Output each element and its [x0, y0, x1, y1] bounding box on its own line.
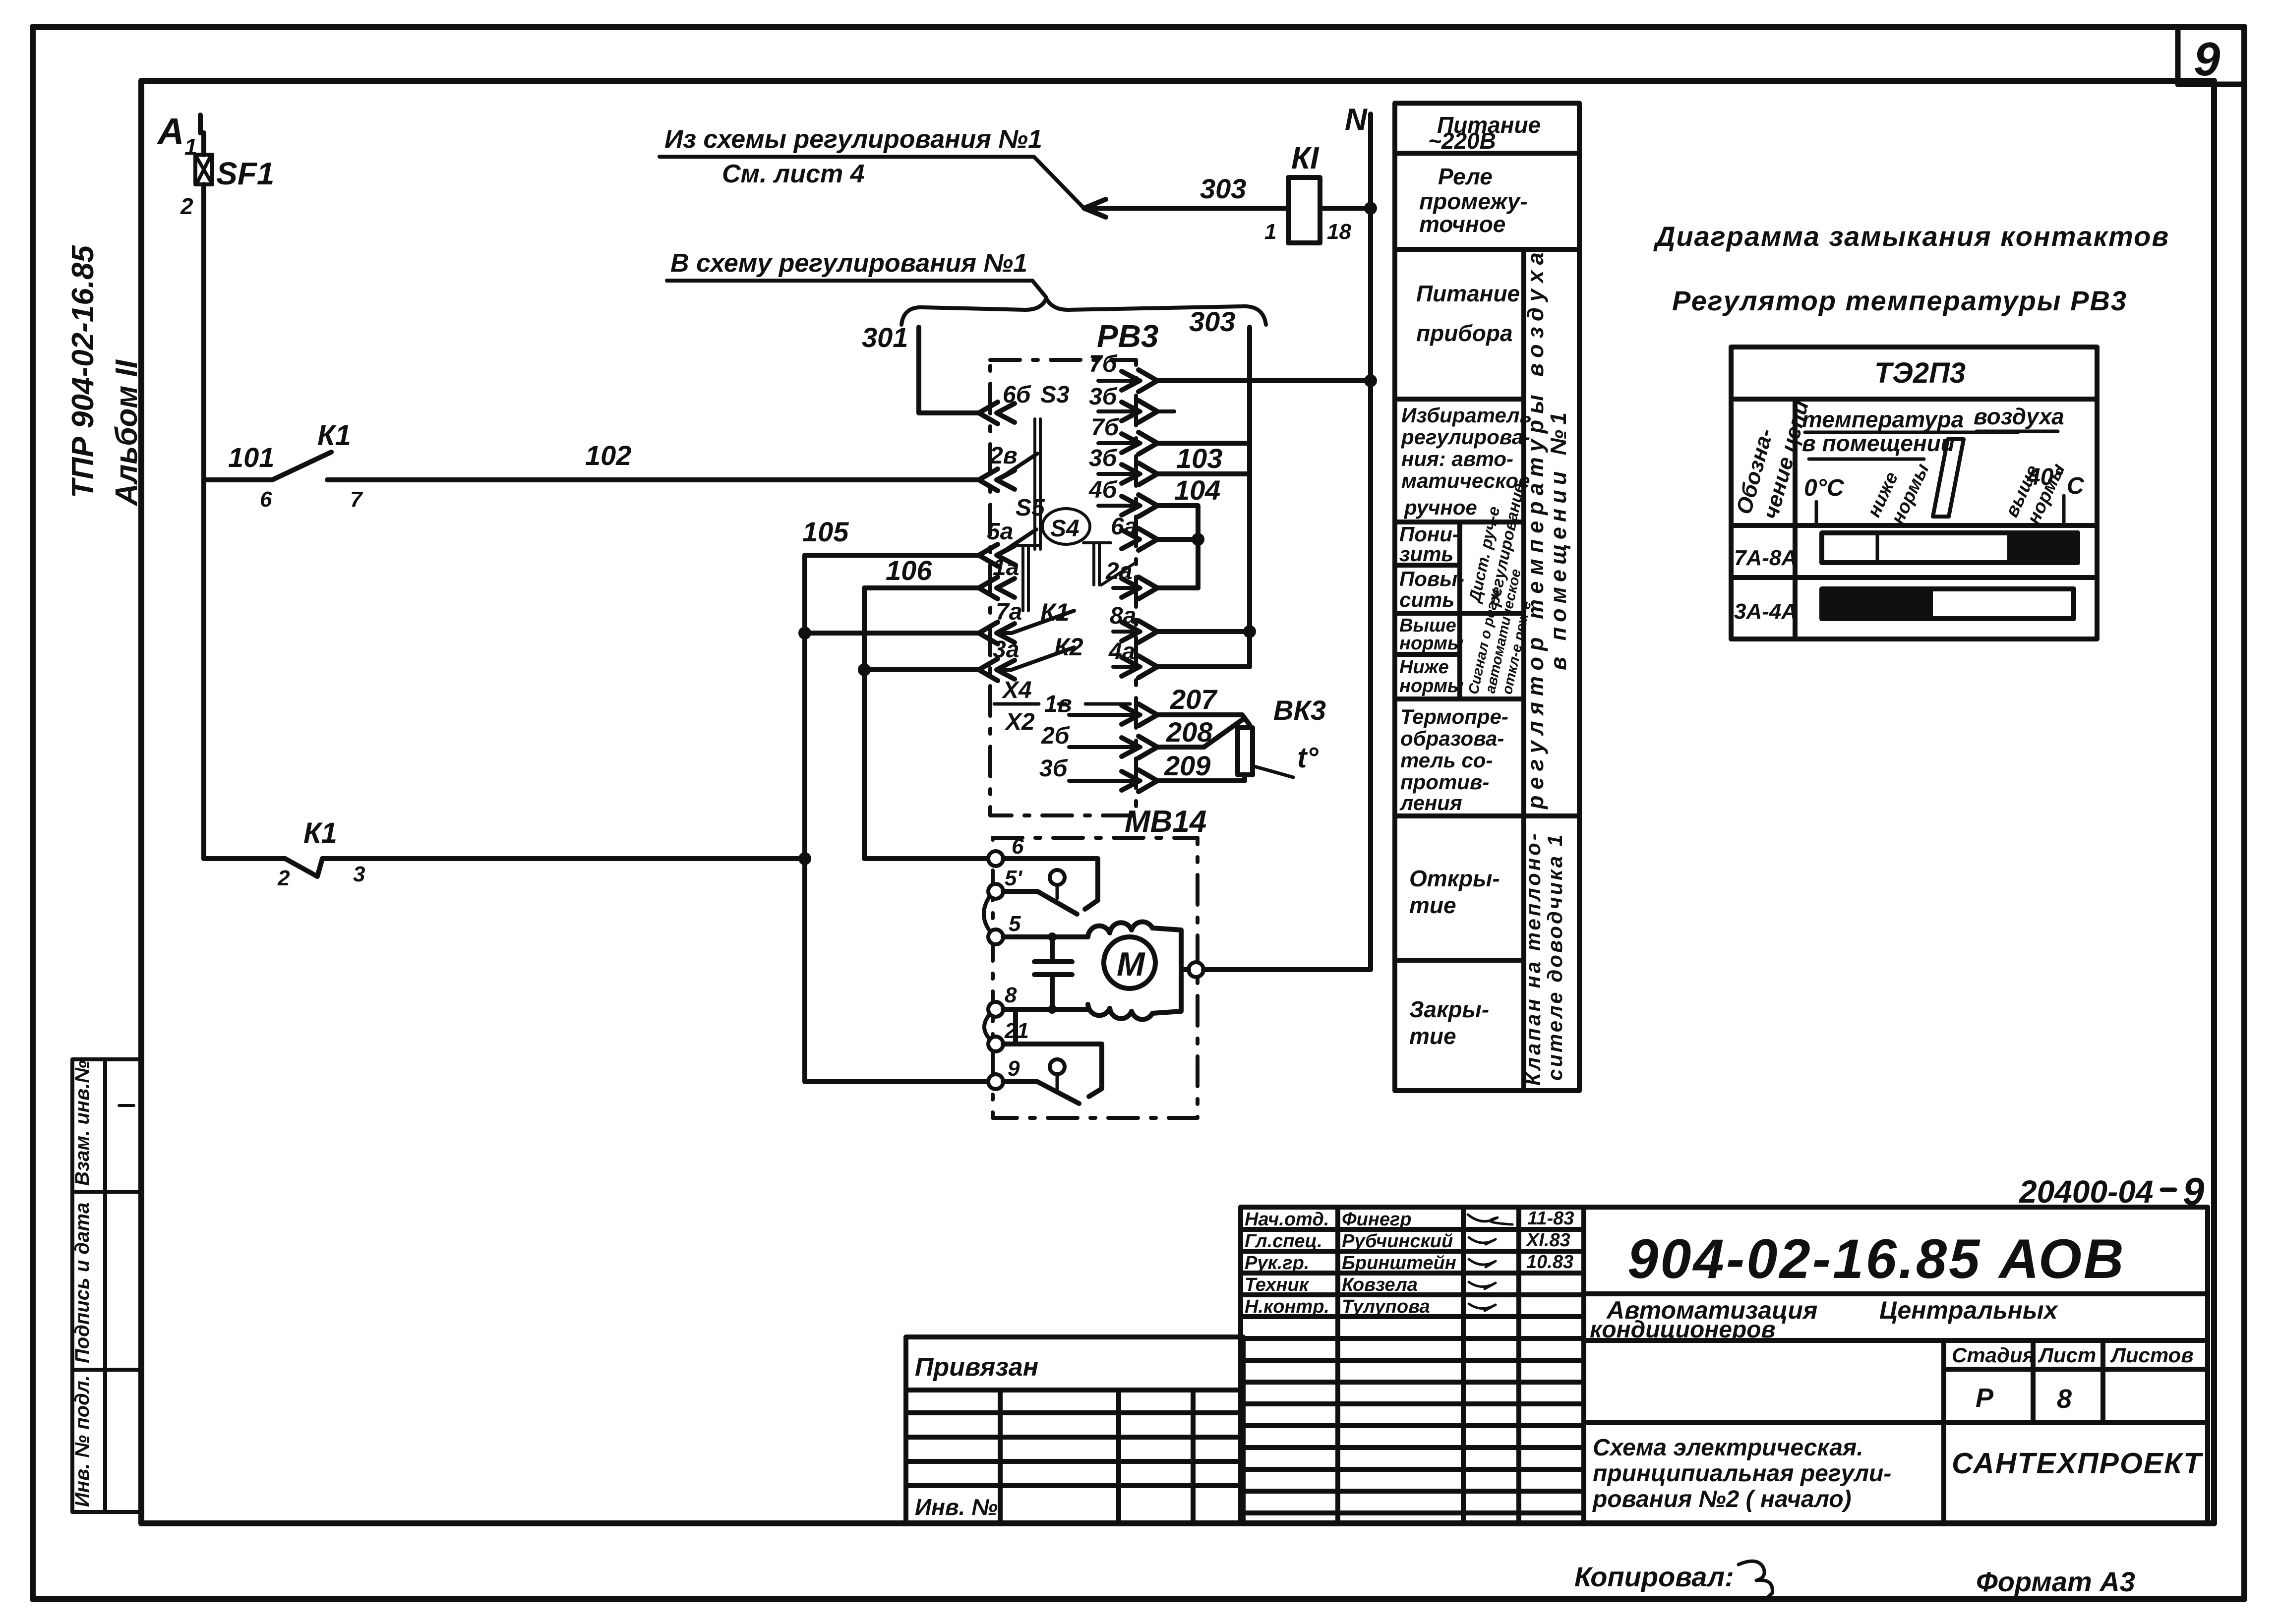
svg-text:101: 101 — [228, 442, 274, 473]
terminal arrow 4b row5 — [1088, 477, 1157, 517]
svg-text:К2: К2 — [1054, 633, 1083, 661]
winding top — [1088, 922, 1181, 967]
wire 207 — [1157, 684, 1250, 725]
terminal 21 — [988, 1019, 1029, 1051]
svg-text:303: 303 — [1189, 306, 1235, 337]
svg-text:ТПР 904-02-16.85: ТПР 904-02-16.85 — [66, 245, 100, 498]
svg-text:рования №2 ( начало): рования №2 ( начало) — [1592, 1486, 1852, 1512]
winding bottom — [1088, 973, 1181, 1019]
wire row9 to bus — [1157, 664, 1250, 669]
svg-text:3: 3 — [353, 862, 365, 886]
svg-text:промежу-: промежу- — [1419, 188, 1528, 214]
brace over RV3 feeders — [901, 298, 1266, 325]
svg-text:МВ14: МВ14 — [1125, 805, 1206, 839]
sensor row 1v — [1044, 691, 1157, 726]
svg-text:Реле: Реле — [1438, 164, 1493, 189]
svg-text:САНТЕХПРОЕКТ: САНТЕХПРОЕКТ — [1952, 1447, 2204, 1480]
svg-text:Из схемы регулирования №1: Из схемы регулирования №1 — [664, 125, 1042, 154]
leader: from scheme N1 — [660, 125, 1084, 208]
svg-text:Закры-: Закры- — [1409, 996, 1489, 1022]
wire row1 to N — [1157, 374, 1377, 387]
terminal 9 — [988, 1056, 1020, 1089]
svg-text:Р: Р — [1976, 1383, 1994, 1413]
svg-text:18: 18 — [1327, 220, 1351, 244]
terminal 6 — [988, 834, 1024, 866]
svg-text:1а: 1а — [993, 554, 1019, 580]
svg-text:301: 301 — [862, 322, 908, 353]
SECTION: title block — [2019, 1169, 2205, 1213]
svg-text:тие: тие — [1409, 892, 1456, 918]
terminal arrow 1a — [979, 554, 1019, 599]
contact K1 (2-3) lower — [204, 817, 365, 890]
svg-text:S4: S4 — [1050, 516, 1080, 542]
svg-text:КI: КI — [1291, 141, 1320, 175]
linking table — [906, 1337, 1243, 1523]
svg-text:кондиционеров: кондиционеров — [1590, 1317, 1776, 1343]
wire 105 vertical to terminal 9 — [805, 555, 988, 1082]
svg-text:2: 2 — [180, 193, 193, 219]
contact 3A-4A bar — [1820, 587, 2074, 621]
svg-text:тель со-: тель со- — [1400, 749, 1493, 772]
svg-text:Нач.отд.: Нач.отд. — [1245, 1209, 1329, 1230]
svg-text:40°: 40° — [2027, 464, 2063, 490]
wire 7a row to bus 1623 — [798, 627, 978, 639]
svg-text:3б: 3б — [1039, 755, 1068, 782]
svg-text:Рубчинский: Рубчинский — [1342, 1231, 1453, 1252]
svg-text:Лист: Лист — [2038, 1343, 2096, 1367]
svg-text:К1: К1 — [303, 817, 337, 849]
svg-text:104: 104 — [1174, 474, 1220, 506]
svg-text:Альбом II: Альбом II — [110, 359, 144, 507]
svg-text:Гл.спец.: Гл.спец. — [1245, 1231, 1322, 1252]
leader: to scheme N1 — [667, 249, 1046, 297]
svg-text:3б: 3б — [1089, 384, 1118, 410]
svg-text:точное: точное — [1419, 211, 1505, 237]
wire row8 to bus — [1157, 625, 1256, 638]
svg-text:Тулупова: Тулупова — [1342, 1296, 1430, 1317]
svg-text:6: 6 — [1012, 834, 1024, 859]
svg-text:против-: против- — [1400, 770, 1489, 794]
svg-text:сителе доводчика 1: сителе доводчика 1 — [1543, 833, 1566, 1081]
wire motor to N — [1181, 966, 1371, 970]
svg-text:Листов: Листов — [2110, 1343, 2194, 1367]
svg-text:прибора: прибора — [1416, 320, 1513, 346]
svg-text:в помещении: в помещении — [1802, 430, 1955, 456]
svg-text:208: 208 — [1166, 716, 1213, 748]
wire 209 — [1157, 750, 1245, 781]
wire: phase A vertical — [201, 208, 206, 859]
switch S4 — [1042, 509, 1137, 585]
svg-text:М: М — [1117, 945, 1145, 983]
svg-text:SF1: SF1 — [216, 156, 274, 191]
terminal arrow 3a — [979, 637, 1019, 681]
svg-text:Повы-: Повы- — [1399, 567, 1464, 590]
svg-text:ручное: ручное — [1404, 496, 1477, 519]
svg-text:10.83: 10.83 — [1526, 1252, 1573, 1273]
sensor row 3b — [1039, 755, 1157, 792]
svg-text:Финегр: Финегр — [1342, 1209, 1411, 1230]
svg-text:7А-8А: 7А-8А — [1734, 546, 1797, 570]
wire terminal 8 to winding — [1003, 1005, 1088, 1014]
terminal out — [1189, 962, 1203, 977]
svg-text:209: 209 — [1164, 750, 1210, 781]
svg-text:К1: К1 — [317, 419, 351, 452]
wire 301 — [862, 322, 919, 413]
svg-text:Х2: Х2 — [1004, 709, 1035, 735]
svg-text:11-83: 11-83 — [1527, 1208, 1574, 1229]
svg-text:РВ3: РВ3 — [1097, 318, 1159, 354]
svg-text:2: 2 — [277, 866, 290, 890]
wire 303 bus right — [1189, 306, 1250, 667]
svg-text:Питание: Питание — [1416, 281, 1520, 306]
svg-text:сить: сить — [1399, 588, 1454, 611]
connector X4/X2 — [994, 677, 1136, 735]
svg-text:Избиратель: Избиратель — [1401, 404, 1532, 427]
wire to node at 1623 — [322, 856, 805, 861]
wire 104 row5 to bus2416 — [1157, 474, 1220, 588]
wire terminal 5 to winding — [1003, 932, 1088, 941]
jumper arc 8-21 — [984, 1014, 990, 1039]
svg-text:регулирова-: регулирова- — [1401, 425, 1530, 449]
terminal arrow 3b row2 — [1089, 384, 1174, 422]
wire 102 — [327, 440, 978, 480]
contact K1 (7a-8a) — [998, 598, 1074, 633]
svg-text:S5: S5 — [1016, 495, 1045, 521]
terminal arrow 7b row1 — [1089, 351, 1157, 392]
wire 303 with arrow — [1084, 173, 1288, 244]
svg-text:904-02-16.85 АОВ: 904-02-16.85 АОВ — [1627, 1228, 2126, 1290]
limit switch open (6-5') — [1003, 859, 1098, 914]
svg-text:Регулятор температуры РВ3: Регулятор температуры РВ3 — [1672, 285, 2127, 316]
svg-text:температура: температура — [1802, 406, 1964, 432]
leader t deg — [1253, 742, 1319, 777]
svg-text:103: 103 — [1176, 443, 1222, 474]
svg-text:ления: ления — [1399, 791, 1462, 814]
svg-text:2в: 2в — [989, 443, 1018, 469]
terminal 5' — [988, 866, 1022, 899]
terminal arrow 3b row4 — [1089, 445, 1157, 485]
svg-text:Формат А3: Формат А3 — [1976, 1566, 2135, 1597]
SECTION: signal table — [1395, 103, 1579, 1091]
svg-text:8а: 8а — [1110, 603, 1136, 629]
svg-text:Бринштейн: Бринштейн — [1342, 1253, 1456, 1274]
terminal arrow 7a — [979, 599, 1022, 644]
svg-text:См. лист 4: См. лист 4 — [722, 160, 865, 188]
terminal arrow 2v — [979, 443, 1018, 491]
svg-text:А: А — [157, 111, 184, 152]
device MV14 dashed box — [993, 805, 1206, 1118]
svg-text:Откры-: Откры- — [1409, 866, 1500, 891]
svg-text:9: 9 — [2194, 33, 2220, 86]
svg-text:Привязан: Привязан — [915, 1353, 1038, 1382]
terminal arrow 6b — [979, 382, 1031, 424]
svg-text:в помещении №1: в помещении №1 — [1546, 407, 1571, 670]
svg-text:XI.83: XI.83 — [1525, 1230, 1570, 1251]
svg-text:~220В: ~220В — [1428, 128, 1496, 154]
svg-text:регулятор температуры воздуха: регулятор температуры воздуха — [1523, 246, 1548, 810]
wire 105 horizontal (5a row) — [802, 516, 978, 555]
svg-text:Центральных: Центральных — [1879, 1296, 2059, 1324]
wire N vertical — [1345, 103, 1371, 966]
terminal 8 — [988, 983, 1017, 1017]
svg-text:В схему регулирования №1: В схему регулирования №1 — [670, 249, 1027, 278]
svg-text:5: 5 — [1009, 912, 1021, 936]
svg-text:воздуха: воздуха — [1974, 404, 2064, 429]
svg-text:0°С: 0°С — [1804, 475, 1845, 501]
svg-text:Копировал:: Копировал: — [1574, 1561, 1734, 1592]
relay coil K1 — [1288, 141, 1351, 244]
svg-text:105: 105 — [802, 516, 849, 547]
svg-text:Техник: Техник — [1245, 1275, 1310, 1295]
svg-text:нормы: нормы — [1399, 676, 1463, 696]
limit switch close (9-21) — [1003, 1059, 1079, 1103]
contact 7A-8A bar — [1822, 530, 2079, 564]
svg-text:3А-4А: 3А-4А — [1734, 599, 1797, 624]
svg-text:Диаграмма замыкания контакто: Диаграмма замыкания контактов — [1653, 221, 2169, 252]
capacitor C — [1034, 937, 1072, 1009]
svg-text:Ковзела: Ковзела — [1342, 1275, 1418, 1295]
svg-text:Термопре-: Термопре- — [1400, 705, 1508, 728]
svg-text:К1: К1 — [1040, 598, 1070, 626]
SECTION: left margin — [72, 1059, 141, 1512]
wire 106 horizontal (1a row) — [864, 555, 978, 588]
sensor row 2b — [1041, 723, 1157, 758]
svg-text:Рук.гр.: Рук.гр. — [1245, 1253, 1309, 1274]
wire 21 bracket — [1003, 1010, 1102, 1097]
contact K1 (6-7) — [272, 419, 363, 512]
wire 301 to 6b — [919, 410, 980, 415]
thermal sensor BK3 resistor — [1238, 695, 1326, 775]
contact K2 (3a-4a) — [998, 633, 1083, 670]
svg-text:207: 207 — [1170, 684, 1218, 715]
svg-text:Стадия: Стадия — [1952, 1343, 2035, 1367]
svg-text:2а: 2а — [1105, 558, 1132, 584]
node junction 1623,1732 — [798, 852, 811, 865]
svg-text:6: 6 — [260, 487, 272, 512]
svg-text:Инв. №: Инв. № — [915, 1494, 998, 1520]
wire 208 — [1157, 716, 1242, 748]
svg-text:1: 1 — [1264, 220, 1276, 244]
terminal arrow 7b row3 — [1091, 414, 1157, 454]
terminal arrow 5b row6 — [1122, 528, 1204, 550]
svg-text:6б: 6б — [1003, 382, 1031, 408]
svg-text:принципиальная регули-: принципиальная регули- — [1593, 1460, 1891, 1487]
terminal arrow 5a — [979, 519, 1015, 566]
breaker SF1 — [195, 133, 212, 208]
svg-text:тие: тие — [1409, 1023, 1456, 1049]
svg-text:7: 7 — [350, 487, 363, 512]
svg-text:S3: S3 — [1040, 382, 1070, 408]
svg-text:5': 5' — [1005, 866, 1022, 890]
node A — [157, 111, 200, 160]
svg-text:зить: зить — [1399, 542, 1453, 566]
svg-text:Ниже: Ниже — [1399, 657, 1449, 678]
svg-text:20400-04: 20400-04 — [2019, 1174, 2153, 1210]
wire row3 to bus303 — [1157, 441, 1250, 446]
wire 101 — [204, 442, 274, 512]
svg-text:7а: 7а — [996, 599, 1022, 625]
svg-text:3а: 3а — [993, 637, 1019, 663]
SECTION: contact closing diagram — [1653, 221, 2169, 316]
diagram scale marks — [1805, 431, 2064, 523]
wire 103 row4 to bus — [1157, 443, 1250, 474]
svg-text:ТЭ2П3: ТЭ2П3 — [1874, 357, 1966, 389]
svg-text:8: 8 — [2057, 1384, 2072, 1414]
svg-text:4б: 4б — [1088, 477, 1118, 503]
wire 106 vertical to terminal 6 — [864, 588, 988, 859]
wire coil to N — [1320, 202, 1377, 215]
switch S3 — [998, 382, 1070, 549]
svg-text:9: 9 — [1008, 1056, 1020, 1081]
svg-text:Взам. инв.№: Взам. инв.№ — [71, 1060, 93, 1186]
svg-text:Х4: Х4 — [1001, 677, 1032, 703]
svg-text:Н.контр.: Н.контр. — [1245, 1296, 1329, 1317]
svg-text:нормы: нормы — [1399, 633, 1463, 654]
svg-text:2б: 2б — [1041, 723, 1070, 749]
svg-text:8: 8 — [1005, 983, 1017, 1007]
svg-text:Инв. № подл.: Инв. № подл. — [71, 1375, 93, 1507]
svg-text:303: 303 — [1200, 173, 1246, 204]
svg-text:ния: авто-: ния: авто- — [1401, 447, 1513, 470]
device RV3 dashed box — [990, 318, 1159, 815]
terminal arrow 4a row9 — [1108, 638, 1157, 678]
jumper arc 5'-5 — [984, 896, 990, 931]
svg-text:Подпись и дата: Подпись и дата — [71, 1203, 93, 1363]
motor M — [1104, 937, 1155, 988]
svg-text:Клапан на теплоно-: Клапан на теплоно- — [1521, 831, 1545, 1086]
wire 3a row to bus 1743 — [858, 663, 978, 676]
svg-text:4а: 4а — [1108, 638, 1135, 665]
svg-text:N: N — [1345, 103, 1368, 137]
svg-text:образова-: образова- — [1400, 727, 1504, 750]
svg-text:7б: 7б — [1091, 414, 1120, 441]
svg-text:Схема электрическая.: Схема электрическая. — [1593, 1435, 1863, 1461]
terminal arrow 2a row7 — [1105, 558, 1198, 599]
terminal 5 — [988, 912, 1021, 944]
switch S5 — [998, 495, 1045, 611]
svg-text:102: 102 — [585, 440, 631, 471]
svg-text:5а: 5а — [987, 519, 1013, 545]
svg-text:ВК3: ВК3 — [1273, 695, 1326, 726]
svg-text:7б: 7б — [1089, 351, 1118, 377]
svg-text:С: С — [2067, 473, 2085, 499]
svg-text:t°: t° — [1297, 742, 1319, 774]
terminal arrow 8a row8 — [1110, 603, 1157, 642]
svg-text:106: 106 — [886, 555, 932, 586]
svg-text:3б: 3б — [1089, 445, 1118, 471]
